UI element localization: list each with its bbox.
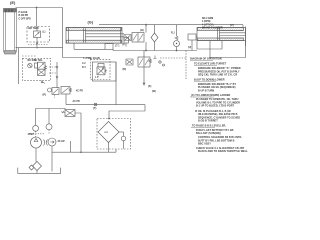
svg-text:(P): (P) — [43, 93, 47, 97]
svg-text:(H): (H) — [140, 28, 144, 32]
svg-text:4 LIFT CYL: 4 LIFT CYL — [202, 23, 215, 26]
svg-text:(F): (F) — [148, 84, 151, 88]
svg-text:C OFF SPD: C OFF SPD — [19, 18, 32, 20]
svg-text:B 4: B 4 — [82, 66, 86, 69]
svg-text:L.J SOL VALVE: L.J SOL VALVE — [84, 57, 101, 60]
svg-text:P GAGE: P GAGE — [19, 11, 28, 14]
svg-text:(L): (L) — [43, 32, 46, 34]
svg-text:(W): (W) — [152, 91, 156, 93]
svg-text:4 (OPN): 4 (OPN) — [202, 20, 211, 23]
svg-text:R.J: R.J — [171, 33, 175, 35]
svg-text:BRAKE CYLINDER: BRAKE CYLINDER — [202, 27, 223, 30]
svg-text:LT 1: LT 1 — [115, 46, 120, 48]
svg-text:AIR TANK: AIR TANK — [28, 27, 39, 30]
svg-text:TO ELEVATE (UP) TURRET: TO ELEVATE (UP) TURRET — [194, 63, 227, 66]
svg-text:DIAGRAM OF OPERATION: DIAGRAM OF OPERATION — [190, 58, 222, 61]
svg-text:(C) TO LOWER (DOWN) LADDER: (C) TO LOWER (DOWN) LADDER — [191, 94, 230, 97]
svg-text:FLT: FLT — [105, 132, 109, 134]
svg-text:(D): (D) — [123, 67, 127, 71]
svg-text:B-1 UP TO BLEED, LTD B PORT: B-1 UP TO BLEED, LTD B PORT — [196, 105, 235, 108]
svg-text:B ON PR: B ON PR — [19, 15, 29, 17]
svg-text:SEQ CKL THRU LINE AT CYL CR: SEQ CKL THRU LINE AT CYL CR — [198, 74, 237, 77]
svg-text:B GB B TURRET: B GB B TURRET — [198, 120, 218, 123]
svg-text:BALLAST (SUB(GB)): BALLAST (SUB(GB)) — [196, 132, 221, 135]
svg-text:NC SOL: NC SOL — [34, 60, 43, 62]
svg-text:NO 2 ARM: NO 2 ARM — [202, 17, 213, 20]
svg-text:(V): (V) — [230, 23, 234, 27]
svg-text:B UP B TURN: B UP B TURN — [198, 90, 214, 93]
svg-text:(U): (U) — [188, 47, 191, 49]
svg-text:BLOCK AND TO DRAIN THROTTLE WE: BLOCK AND TO DRAIN THROTTLE WELL — [198, 150, 248, 153]
svg-text:(E): (E) — [10, 0, 16, 5]
svg-text:A 2: A 2 — [82, 62, 86, 65]
svg-text:(T): (T) — [93, 106, 96, 110]
svg-text:3C HP: 3C HP — [58, 140, 65, 143]
svg-text:(I): (I) — [122, 42, 125, 46]
svg-text:4C PR: 4C PR — [76, 90, 83, 93]
svg-text:B (UP TO DOWN) LOWER: B (UP TO DOWN) LOWER — [194, 78, 225, 81]
svg-text:(G): (G) — [88, 21, 94, 25]
svg-text:BBC ASSY: BBC ASSY — [198, 143, 211, 146]
svg-text:AC PR: AC PR — [73, 100, 80, 103]
svg-text:1PMP: 1PMP — [28, 134, 35, 136]
svg-text:TO RAISE B B B LEVELLER,: TO RAISE B B B LEVELLER, — [192, 125, 226, 128]
svg-text:L P: L P — [95, 77, 99, 79]
